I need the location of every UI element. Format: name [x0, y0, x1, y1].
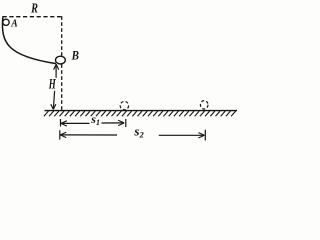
- svg-text:A: A: [10, 18, 18, 29]
- svg-text:R: R: [30, 0, 38, 16]
- svg-text:H: H: [48, 75, 56, 92]
- dashed ghost ball at second bounce: [200, 101, 208, 109]
- ground line: [45, 110, 238, 112]
- arrow H down segment: [51, 91, 56, 110]
- wire: dashed vertical line from corner through B to ground: [61, 16, 63, 110]
- quarter-circle ramp arc from A to B: [2, 17, 56, 64]
- svg-text:B: B: [71, 49, 80, 63]
- ball A: [3, 19, 9, 25]
- ground hatching: [44, 111, 236, 116]
- wire: dashed horizontal radius line R: [3, 16, 64, 18]
- dashed ghost ball at first bounce: [120, 101, 128, 109]
- dimension s2: [60, 130, 206, 141]
- arrow H up segment: [54, 64, 59, 78]
- ball B: [56, 56, 66, 64]
- dimension s1: [61, 119, 126, 127]
